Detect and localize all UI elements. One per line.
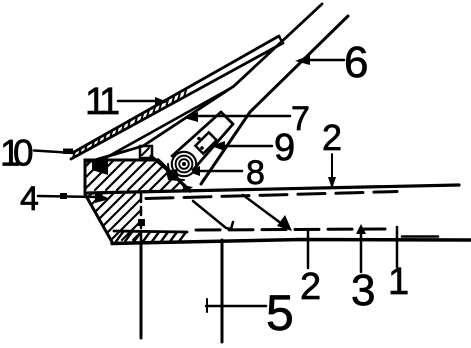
screw channel 9 xyxy=(195,132,216,153)
cover strip 11 (upper edge) xyxy=(74,36,279,152)
label 3 leader xyxy=(360,231,363,272)
panel bottom dashed line xyxy=(196,229,385,230)
cover strip 11 (right end cap) xyxy=(279,36,282,42)
svg-text:1: 1 xyxy=(388,261,409,303)
frame profile 4 outline xyxy=(85,160,158,194)
label 9 leader xyxy=(223,145,272,148)
svg-text:0: 0 xyxy=(13,133,34,174)
svg-text:9: 9 xyxy=(274,127,295,169)
label 5 leader xyxy=(206,305,266,308)
cover strip 11 hatch ticks xyxy=(73,90,186,158)
label 7 leader xyxy=(195,115,290,118)
label 4 leader xyxy=(38,196,98,197)
bar foot dark wedges xyxy=(166,169,179,181)
frame profile 4 hatch (lower left) xyxy=(87,194,141,240)
glazing bar end cap xyxy=(221,112,233,124)
frame corner dark fill xyxy=(92,161,108,175)
clamp to pivot line xyxy=(151,156,172,174)
svg-text:2: 2 xyxy=(322,117,342,158)
pivot spiral 8 xyxy=(172,152,196,176)
wall line 5 (left vertical) xyxy=(140,245,143,338)
hook flashing diagonal xyxy=(193,201,233,229)
glass pane line 7 (lower diagonal) xyxy=(201,16,348,184)
svg-text:1: 1 xyxy=(99,81,120,123)
panel top chord xyxy=(88,185,459,193)
svg-text:5: 5 xyxy=(266,285,294,341)
svg-text:4: 4 xyxy=(20,180,39,218)
drainage arrow diagonal xyxy=(243,195,282,224)
glass pane line 6 (upper diagonal) xyxy=(88,4,322,162)
label 2 lower leader xyxy=(307,231,310,268)
label 11 leader xyxy=(118,100,158,103)
panel bottom chord xyxy=(112,240,471,244)
label 8 leader xyxy=(197,170,242,173)
flashing upper face line xyxy=(100,88,231,161)
panel bottom flange top edge xyxy=(114,231,187,232)
glazing bar upper edge xyxy=(172,112,221,156)
svg-text:6: 6 xyxy=(344,38,368,87)
wall line 5 (right vertical) xyxy=(221,240,224,342)
cover strip 11 (lower edge) xyxy=(71,43,283,159)
svg-text:3: 3 xyxy=(351,266,375,315)
svg-text:2: 2 xyxy=(300,266,321,308)
label 10 leader xyxy=(34,151,74,154)
frame profile 4 hatch (top bar) xyxy=(86,161,186,190)
clamp block xyxy=(140,146,152,158)
bottom flange hatch xyxy=(116,232,186,242)
panel top dashed line xyxy=(146,192,397,199)
label 6 leader xyxy=(308,59,344,62)
glazing bar lower edge xyxy=(193,124,233,170)
label 2 upper leader xyxy=(331,154,333,184)
svg-text:8: 8 xyxy=(246,154,265,192)
label 1 leader xyxy=(396,227,399,267)
